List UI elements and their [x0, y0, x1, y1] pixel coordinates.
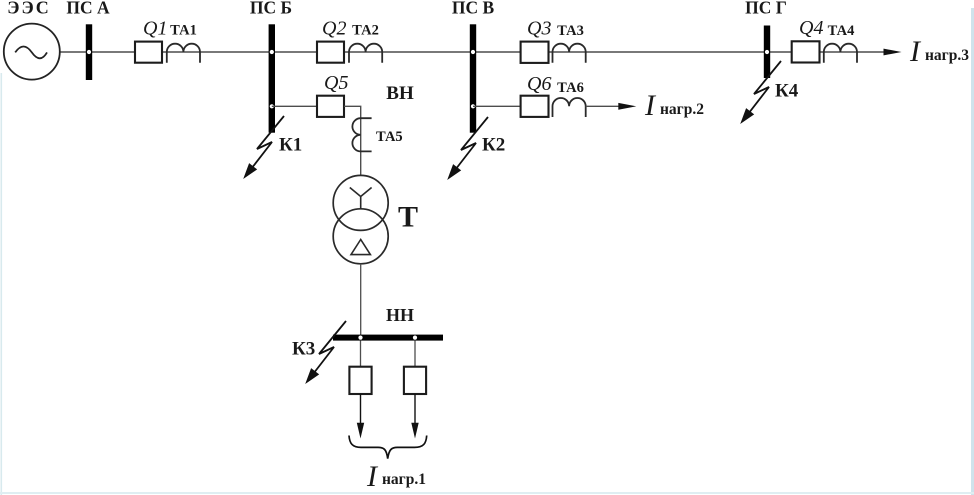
svg-text:ПС Б: ПС Б: [250, 0, 292, 18]
junction dot ПС Г: [765, 50, 769, 54]
breaker Q6: [521, 96, 549, 117]
wire НН to feeder 2: [414, 341, 416, 367]
bus НН: [333, 335, 443, 341]
junction dot НН left: [358, 336, 362, 340]
bus ПС Г: [764, 26, 770, 79]
junction dot ПС Б lower: [270, 104, 274, 108]
wire ПС В to Q6: [473, 105, 521, 107]
fault K4: [741, 61, 781, 123]
svg-text:нагр.3: нагр.3: [925, 47, 969, 64]
wire transformer to НН bus: [360, 264, 362, 335]
delta symbol: [351, 240, 370, 255]
junction dot on ПС А: [87, 50, 91, 54]
fault K2: [448, 117, 488, 179]
transformer T winding LV: [333, 209, 388, 264]
CT TA6: [553, 98, 586, 117]
star symbol: [350, 188, 372, 209]
transformer T winding HV: [333, 175, 388, 230]
breaker Q1: [135, 42, 162, 63]
svg-text:ЭЭС: ЭЭС: [7, 0, 50, 18]
svg-text:ПС А: ПС А: [66, 0, 110, 18]
svg-text:К3: К3: [292, 339, 315, 360]
svg-text:Q1: Q1: [143, 18, 167, 40]
svg-text:ТА2: ТА2: [352, 23, 379, 39]
wire ПС Б to Q5: [272, 105, 317, 107]
bus ПС А: [86, 24, 92, 80]
svg-text:Q4: Q4: [799, 17, 823, 39]
svg-text:ТА6: ТА6: [557, 80, 584, 96]
junction dot ПС Б top: [270, 50, 274, 54]
junction dot ПС В top: [471, 50, 475, 54]
wire НН to feeder 1: [360, 341, 362, 367]
wire feeder 1 arrow: [360, 394, 362, 426]
svg-text:ТА5: ТА5: [376, 129, 403, 145]
svg-text:нагр.2: нагр.2: [660, 101, 704, 118]
generator ЭЭС: [4, 24, 60, 80]
CT TA1: [167, 44, 200, 63]
breaker Q5: [317, 96, 344, 117]
svg-text:К1: К1: [279, 135, 302, 156]
feeder breaker 1: [349, 367, 371, 394]
bus ПС В: [470, 24, 476, 132]
CT TA4: [824, 44, 857, 63]
CT TA3: [553, 44, 586, 63]
svg-text:Q5: Q5: [324, 72, 348, 94]
svg-text:ВН: ВН: [386, 83, 414, 104]
wire feeder 2 arrow: [414, 394, 416, 426]
bus ПС Б: [269, 24, 275, 132]
svg-text:ТА4: ТА4: [828, 23, 855, 39]
arrow head load 2: [618, 103, 636, 110]
svg-text:Q3: Q3: [527, 18, 551, 40]
svg-text:ПС В: ПС В: [452, 0, 495, 18]
junction dot НН right: [413, 336, 417, 340]
svg-text:Т: Т: [398, 201, 418, 234]
svg-text:Q2: Q2: [322, 18, 346, 40]
svg-text:Q6: Q6: [527, 73, 551, 95]
breaker Q3: [521, 42, 549, 63]
svg-text:К4: К4: [775, 81, 799, 102]
feeder breaker 2: [404, 367, 426, 394]
junction dot ПС В lower: [471, 104, 475, 108]
svg-text:ПС Г: ПС Г: [745, 0, 787, 18]
svg-text:нагр.1: нагр.1: [382, 471, 426, 488]
fault K1: [244, 116, 284, 178]
CT TA5: [352, 118, 371, 151]
fault K3: [306, 321, 346, 383]
bottom blue border: [0, 492, 974, 494]
breaker Q2: [317, 42, 344, 63]
CT TA2: [349, 44, 382, 63]
wire main line: [60, 51, 886, 53]
wire TA6 to load 2: [586, 105, 619, 107]
svg-text:ТА1: ТА1: [170, 23, 197, 39]
svg-text:К2: К2: [482, 135, 505, 156]
arrow head feeder 1: [357, 423, 364, 439]
svg-text:ТА3: ТА3: [557, 23, 584, 39]
breaker Q4: [792, 41, 820, 62]
arrow head load 3: [884, 49, 902, 56]
wire Q5 to TA5 corner: [344, 106, 361, 176]
arrow head feeder 2: [411, 423, 418, 439]
right blue border: [971, 8, 974, 495]
svg-text:НН: НН: [386, 305, 414, 325]
brace load 1: [349, 436, 427, 459]
left blue border: [1, 73, 3, 495]
